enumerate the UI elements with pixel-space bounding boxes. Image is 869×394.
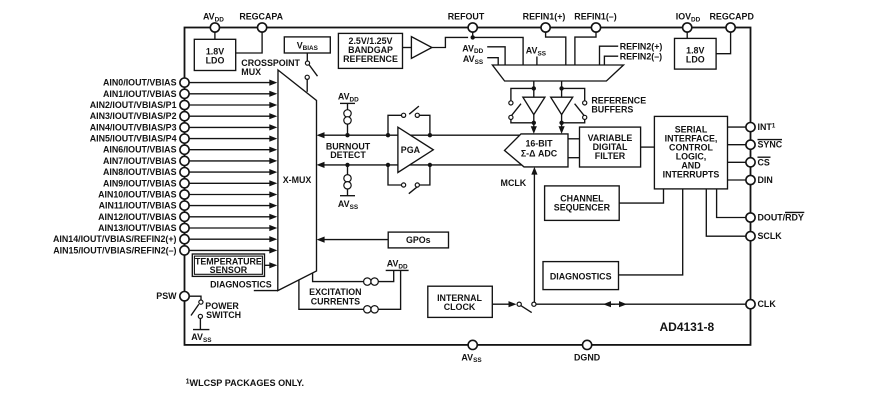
ground AVSS (power switch) — [191, 319, 212, 344]
wire AIN2 to X-MUX — [189, 102, 277, 108]
wire REFIN1(+) to reference mux — [546, 32, 566, 65]
pin INT1 — [746, 122, 776, 132]
reference buffer 1 — [523, 97, 545, 123]
current source excitation top — [364, 278, 379, 285]
pin AIN4/IOUT/VBIAS/P3 — [90, 122, 189, 132]
wire AVSS to reference mux — [487, 58, 498, 65]
current source excitation bottom — [364, 306, 379, 313]
svg-text:AIN6/IOUT/VBIAS: AIN6/IOUT/VBIAS — [103, 145, 177, 155]
svg-text:AIN9/IOUT/VBIAS: AIN9/IOUT/VBIAS — [103, 178, 177, 188]
pin AIN0/IOUT/VBIAS — [103, 78, 189, 88]
pin AIN5/IOUT/VBIAS/P4 — [90, 134, 189, 144]
chip outline AD4131-8 — [185, 28, 751, 345]
svg-text:DOUT/RDY: DOUT/RDY — [758, 213, 804, 223]
svg-text:Σ-Δ ADC: Σ-Δ ADC — [521, 148, 558, 158]
reference buffer 2 — [551, 97, 573, 123]
wire PSW to power switch — [190, 296, 201, 300]
power bar AVDD (burnout) — [340, 103, 355, 110]
svg-text:DIN: DIN — [758, 175, 773, 185]
svg-text:DETECT: DETECT — [330, 150, 366, 160]
svg-text:CLOCK: CLOCK — [444, 302, 476, 312]
reference mux — [492, 65, 623, 81]
pin AIN15/IOUT/VBIAS/REFIN2(-) — [53, 245, 189, 255]
wire AIN13 to X-MUX — [189, 225, 277, 231]
svg-text:CLK: CLK — [758, 299, 777, 309]
wire AVDD to reference mux — [487, 47, 505, 65]
label EXCITATION CURRENTS — [309, 287, 361, 307]
power bar AVDD (excitation) — [386, 259, 409, 271]
wire AIN9 to X-MUX — [189, 180, 277, 186]
svg-text:REFOUT: REFOUT — [448, 12, 485, 22]
wire buffer 2 to ADC — [559, 123, 565, 134]
label AVDD (burnout) — [338, 92, 359, 104]
svg-text:SENSOR: SENSOR — [210, 265, 248, 275]
current source burnout bottom — [344, 165, 351, 189]
pin AIN13/IOUT/VBIAS — [98, 223, 189, 233]
svg-text:16-BIT: 16-BIT — [525, 139, 553, 149]
wire X-MUX to PGA/ADC negative (bottom analog rail) — [317, 162, 522, 168]
label REFERENCE BUFFERS — [591, 96, 646, 115]
wire excitation top to AVDD — [378, 270, 393, 281]
label AD4131-8 — [660, 320, 715, 334]
wire buffer 1 to ADC — [531, 123, 537, 134]
node buffer 1 input — [532, 86, 536, 90]
svg-text:GPOs: GPOs — [406, 235, 431, 245]
wire reference mux to buffer 1 — [533, 81, 535, 97]
wire AIN8 to X-MUX — [189, 169, 277, 175]
wire REFOUT node to reference mux — [473, 37, 523, 65]
wire AIN5 to X-MUX — [189, 136, 277, 142]
block VBIAS — [284, 37, 330, 53]
regulator 1.8V LDO (analog) — [194, 39, 235, 70]
op-amp PGA — [398, 127, 433, 172]
arrowhead CLK bidirectional left — [603, 301, 615, 307]
switch VBIAS — [305, 53, 317, 92]
pin REFIN1(-) — [574, 12, 616, 32]
svg-text:REFIN1(–): REFIN1(–) — [574, 12, 616, 22]
pin AVDD (top) — [203, 12, 224, 32]
wire AIN12 to X-MUX — [189, 214, 277, 220]
wire diagnostics to serial interface — [619, 189, 683, 275]
wire AVDD pin to LDO — [214, 32, 216, 39]
block diagnostics — [543, 262, 619, 290]
wire serial to SCLK — [706, 189, 746, 236]
svg-text:REGCAPA: REGCAPA — [239, 12, 283, 22]
svg-text:AIN1/IOUT/VBIAS: AIN1/IOUT/VBIAS — [103, 89, 177, 99]
svg-text:PSW: PSW — [156, 291, 177, 301]
wire AIN3 to X-MUX — [189, 113, 277, 119]
wire excitation bottom to AVDD — [378, 270, 400, 309]
pin SYNC (active low) — [746, 140, 783, 150]
pin DOUT/RDY (RDY active low) — [746, 212, 804, 222]
pin REGCAPD — [710, 12, 755, 32]
pin DIN — [746, 175, 773, 185]
pin REGCAPA — [239, 12, 283, 32]
wire MCLK to ADC — [531, 167, 537, 302]
svg-text:SWITCH: SWITCH — [206, 310, 241, 320]
pin DGND — [574, 340, 601, 362]
pin AIN12/IOUT/VBIAS — [98, 212, 189, 222]
svg-text:INTERRUPTS: INTERRUPTS — [663, 169, 720, 179]
wire bandgap buffer to REFOUT — [432, 37, 468, 47]
pin SCLK — [746, 231, 782, 241]
label DIAGNOSTICS (temp sensor) — [210, 279, 278, 290]
block 2.5V/1.25V bandgap reference — [338, 33, 402, 68]
footnote 1WLCSP PACKAGES ONLY — [186, 378, 304, 388]
ADC 16-bit sigma-delta — [505, 134, 569, 167]
svg-text:DIAGNOSTICS: DIAGNOSTICS — [210, 279, 272, 289]
wire channel sequencer to serial interface — [619, 189, 663, 203]
svg-text:SCLK: SCLK — [758, 231, 783, 241]
pin AIN14/IOUT/VBIAS/REFIN2(+) — [53, 234, 189, 244]
pin AIN7/IOUT/VBIAS — [103, 156, 189, 166]
wire REFIN1(-) to reference mux — [575, 32, 596, 65]
svg-text:AIN15/IOUT/VBIAS/REFIN2(–): AIN15/IOUT/VBIAS/REFIN2(–) — [53, 245, 176, 255]
wire AIN1 to X-MUX — [189, 91, 277, 97]
label CROSSPOINT MUX — [241, 58, 300, 77]
label REFIN2(-) — [620, 51, 662, 61]
switch PGA bypass top — [388, 106, 430, 135]
block channel sequencer — [545, 186, 620, 221]
wire IOVDD pin to LDO — [686, 32, 688, 38]
wire REGCAPA pin to LDO — [236, 32, 262, 53]
svg-text:BUFFERS: BUFFERS — [591, 105, 633, 115]
node burnout bottom — [345, 163, 349, 167]
label MCLK — [501, 178, 527, 188]
node REFOUT junction — [471, 35, 475, 39]
wire serial to CS — [728, 161, 746, 163]
svg-text:SYNC: SYNC — [758, 140, 783, 150]
wire AIN6 to X-MUX — [189, 147, 277, 153]
wire serial to SYNC — [728, 144, 746, 146]
svg-text:CURRENTS: CURRENTS — [311, 297, 360, 307]
wire REFIN2(-) to reference mux — [604, 56, 618, 65]
svg-text:SEQUENCER: SEQUENCER — [554, 202, 611, 212]
wire ADC to filter (top) — [568, 138, 580, 140]
pin AVSS (bottom) — [461, 340, 482, 364]
wire internal clock output — [492, 301, 516, 307]
node buffer 2 input — [559, 86, 563, 90]
svg-text:REFIN2(+): REFIN2(+) — [620, 41, 663, 51]
pin AIN6/IOUT/VBIAS — [103, 145, 189, 155]
node buffer 1 output — [532, 121, 536, 125]
svg-text:DIAGNOSTICS: DIAGNOSTICS — [550, 271, 612, 281]
svg-text:X-MUX: X-MUX — [283, 175, 312, 185]
wire ADC to filter (bottom) — [568, 157, 580, 159]
wire REFIN2(+) to reference mux — [600, 46, 619, 65]
label AVDD (ref mux input) — [462, 43, 483, 55]
switch internal clock — [517, 302, 536, 313]
wire REGCAPD pin to LDO — [716, 32, 731, 54]
label POWER SWITCH — [205, 301, 241, 320]
node buffer 2 output — [559, 121, 563, 125]
block internal clock — [428, 286, 493, 317]
switch buffer 1 bypass — [509, 88, 534, 122]
node burnout top — [345, 133, 349, 137]
pin AIN2/IOUT/VBIAS/P1 — [90, 100, 189, 110]
svg-text:AIN0/IOUT/VBIAS: AIN0/IOUT/VBIAS — [103, 78, 177, 88]
pin IOVDD — [676, 12, 701, 32]
wire reference mux to buffer 2 — [561, 81, 563, 97]
block serial interface control logic and interrupts — [654, 116, 727, 188]
svg-text:DGND: DGND — [574, 352, 601, 362]
label AVSS (second, ref mux input) — [526, 46, 547, 58]
svg-text:MCLK: MCLK — [501, 178, 527, 188]
wire AIN11 to X-MUX — [189, 203, 277, 209]
regulator 1.8V LDO (digital) — [675, 38, 717, 69]
svg-text:PGA: PGA — [401, 145, 421, 155]
node PGA output bottom — [428, 163, 432, 167]
svg-text:REFERENCE: REFERENCE — [343, 54, 398, 64]
svg-text:MUX: MUX — [241, 67, 261, 77]
svg-text:REGCAPD: REGCAPD — [710, 12, 755, 22]
block GPOs — [388, 232, 448, 248]
svg-text:AIN7/IOUT/VBIAS: AIN7/IOUT/VBIAS — [103, 156, 177, 166]
svg-text:LDO: LDO — [206, 55, 225, 65]
wire temperature sensor to X-MUX — [265, 262, 278, 268]
switch buffer 2 bypass — [562, 88, 587, 122]
switch PGA bypass bottom — [388, 165, 430, 194]
svg-text:REFIN2(–): REFIN2(–) — [620, 51, 662, 61]
switch power switch — [191, 300, 203, 319]
node PGA output top — [428, 133, 432, 137]
svg-text:AIN12/IOUT/VBIAS: AIN12/IOUT/VBIAS — [98, 212, 176, 222]
wire excitation current bottom from X-MUX — [299, 280, 364, 309]
block temperature sensor — [192, 254, 264, 276]
svg-text:FILTER: FILTER — [595, 151, 626, 161]
wire AVSS second to reference mux — [536, 57, 538, 66]
wire filter to serial interface — [641, 146, 655, 148]
svg-text:AIN14/IOUT/VBIAS/REFIN2(+): AIN14/IOUT/VBIAS/REFIN2(+) — [53, 234, 177, 244]
svg-text:AIN8/IOUT/VBIAS: AIN8/IOUT/VBIAS — [103, 167, 177, 177]
svg-text:AIN11/IOUT/VBIAS: AIN11/IOUT/VBIAS — [99, 201, 177, 211]
pin AIN8/IOUT/VBIAS — [103, 167, 189, 177]
crosspoint mux X-MUX — [278, 70, 317, 291]
pin AIN3/IOUT/VBIAS/P2 — [90, 111, 189, 121]
pin CS (active low) — [746, 157, 771, 167]
pin AIN9/IOUT/VBIAS — [103, 178, 189, 188]
wire REFOUT pin down to node — [472, 32, 474, 37]
wire AIN15 to X-MUX — [189, 247, 277, 253]
wire serial to DOUT/RDY — [717, 189, 746, 218]
wire AIN10 to X-MUX — [189, 191, 277, 197]
pin CLK — [746, 299, 776, 309]
svg-text:AIN3/IOUT/VBIAS/P2: AIN3/IOUT/VBIAS/P2 — [90, 111, 177, 121]
svg-text:AIN5/IOUT/VBIAS/P4: AIN5/IOUT/VBIAS/P4 — [90, 134, 177, 144]
svg-text:AIN13/IOUT/VBIAS: AIN13/IOUT/VBIAS — [98, 223, 176, 233]
wire GPOs to X-MUX — [317, 237, 389, 243]
pin REFIN1(+) — [523, 12, 566, 32]
label REFIN2(+) — [620, 41, 663, 51]
wire CLK line to pin — [536, 303, 746, 305]
node PGA input bottom — [386, 163, 390, 167]
label AVSS (ref mux input) — [463, 54, 484, 66]
svg-text:AD4131-8: AD4131-8 — [660, 320, 715, 334]
arrowhead CLK bidirectional right — [619, 301, 627, 307]
ground bar AVSS (burnout) — [338, 189, 359, 211]
wire AIN4 to X-MUX — [189, 124, 277, 130]
pin AIN10/IOUT/VBIAS — [98, 190, 189, 200]
svg-text:EXCITATION: EXCITATION — [309, 287, 361, 297]
buffer amp (bandgap output) — [403, 37, 432, 59]
wire serial to INT1 — [728, 126, 746, 128]
wire AIN0 to X-MUX — [189, 80, 277, 86]
pin AIN1/IOUT/VBIAS — [103, 89, 189, 99]
svg-text:REFIN1(+): REFIN1(+) — [523, 12, 566, 22]
wire X-MUX to PGA/ADC positive (top analog rail) — [317, 132, 520, 138]
pin AIN11/IOUT/VBIAS — [99, 201, 190, 211]
svg-text:CS: CS — [758, 157, 770, 167]
label BURNOUT DETECT — [326, 142, 371, 160]
svg-text:LDO: LDO — [686, 54, 705, 64]
svg-text:AIN4/IOUT/VBIAS/P3: AIN4/IOUT/VBIAS/P3 — [90, 122, 177, 132]
wire AIN14 to X-MUX — [189, 236, 277, 242]
wire excitation current top from X-MUX — [313, 273, 364, 282]
pin PSW — [156, 291, 189, 301]
svg-text:1WLCSP PACKAGES ONLY.: 1WLCSP PACKAGES ONLY. — [186, 378, 304, 388]
pin REFOUT — [448, 12, 485, 32]
block variable digital filter — [580, 127, 641, 167]
wire AIN7 to X-MUX — [189, 158, 277, 164]
svg-text:AIN2/IOUT/VBIAS/P1: AIN2/IOUT/VBIAS/P1 — [90, 100, 177, 110]
svg-text:AIN10/IOUT/VBIAS: AIN10/IOUT/VBIAS — [98, 190, 176, 200]
current source burnout top — [344, 110, 351, 135]
node PGA input top — [386, 133, 390, 137]
wire serial to DIN — [728, 179, 746, 181]
